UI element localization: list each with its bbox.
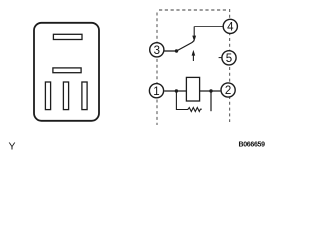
svg-text:5: 5: [226, 53, 232, 65]
svg-text:4: 4: [227, 22, 234, 34]
svg-text:B066659: B066659: [239, 142, 266, 149]
svg-text:2: 2: [225, 85, 231, 97]
svg-text:3: 3: [154, 45, 160, 57]
svg-text:Y: Y: [9, 141, 16, 153]
svg-text:1: 1: [153, 86, 159, 98]
